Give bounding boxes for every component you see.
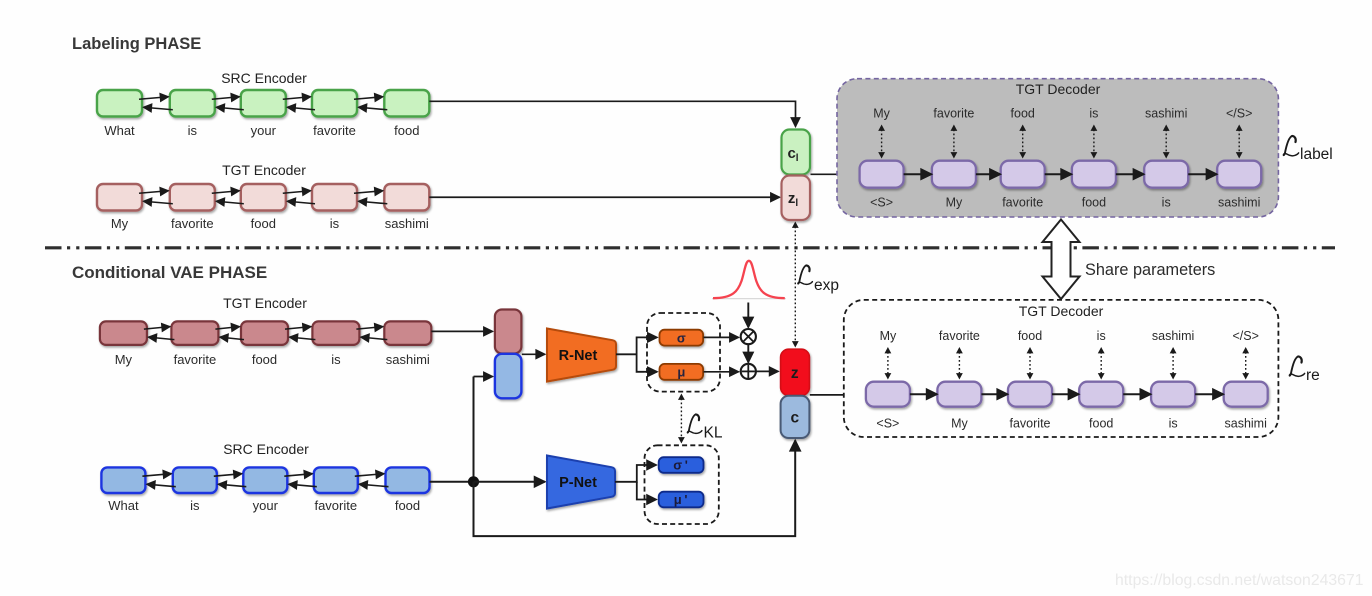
svg-text:Labeling PHASE: Labeling PHASE	[72, 35, 201, 53]
label sigma	[677, 330, 686, 345]
rose TGT encoder cell 4	[312, 321, 359, 345]
label SRC Encoder (top)	[221, 70, 307, 86]
svg-text:My: My	[111, 216, 129, 231]
word "favorite" under rose cell 2	[174, 352, 217, 367]
svg-text:R-Net: R-Net	[559, 348, 598, 364]
lower decoder input word 5	[1169, 417, 1178, 431]
svg-text:is: is	[190, 498, 200, 513]
lower decoder output word 4	[1097, 329, 1106, 343]
blue SRC encoder cell 3	[243, 467, 287, 493]
wire bidirectional arrows pink 2-3	[212, 191, 244, 204]
svg-text:is: is	[330, 216, 340, 231]
svg-text:My: My	[115, 352, 133, 367]
wire bidirectional arrows blue 2-3	[214, 474, 247, 487]
svg-text:</S>: </S>	[1226, 107, 1252, 121]
purple lower decoder cell 2	[937, 382, 981, 407]
word "What" under green cell 1	[104, 123, 135, 138]
lower decoder output word 3	[1018, 329, 1042, 343]
dashed double arrow upper decoder 1	[878, 125, 885, 159]
wire upper decoder 2-3	[976, 173, 1000, 175]
upper decoder output word 6	[1226, 107, 1252, 121]
title Labeling PHASE	[72, 35, 201, 53]
svg-text:z: z	[791, 365, 799, 382]
latent box z (red)	[781, 349, 810, 395]
recognition sigma-mu dashed container	[647, 313, 720, 392]
wire fork to sigma-prime	[644, 464, 656, 466]
prior network P-Net	[547, 456, 615, 509]
pink TGT encoder cell 2	[170, 184, 215, 211]
wire stacked latent to R-Net	[522, 353, 545, 355]
purple lower decoder cell 6	[1224, 382, 1268, 407]
svg-text:<S>: <S>	[870, 196, 893, 210]
wire bidirectional arrows rose 3-4	[285, 327, 315, 340]
rose TGT encoder cell 3	[241, 321, 288, 345]
wire multiply to add node	[747, 344, 749, 362]
green SRC encoder cell 5	[384, 90, 429, 117]
svg-text:food: food	[1082, 196, 1106, 210]
svg-text:sashimi: sashimi	[1152, 329, 1194, 343]
svg-text:</S>: </S>	[1232, 329, 1258, 343]
lower decoder input word 2	[951, 417, 968, 431]
svg-text:sashimi: sashimi	[385, 216, 429, 231]
dashed double arrow lower decoder 6	[1242, 347, 1249, 380]
dashed double arrow lower decoder 1	[885, 347, 892, 380]
gaussian prior curve	[712, 261, 786, 299]
wire R-Net to sigma/mu fork	[616, 337, 644, 371]
wire blue encoder to junction	[430, 481, 474, 483]
word "is" under blue cell 2	[190, 498, 200, 513]
label z_l	[788, 190, 799, 209]
svg-text:SRC Encoder: SRC Encoder	[223, 441, 309, 457]
svg-text:is: is	[1169, 417, 1178, 431]
context box c (blue)	[781, 396, 810, 438]
svg-text:My: My	[951, 417, 968, 431]
wire bidirectional arrows rose 1-2	[144, 327, 175, 340]
svg-text:is: is	[1162, 196, 1171, 210]
blue SRC encoder cell 4	[314, 467, 358, 493]
svg-text:sashimi: sashimi	[1225, 417, 1267, 431]
pink TGT encoder cell 4	[312, 184, 357, 211]
svg-text:label: label	[1300, 146, 1333, 163]
svg-text:favorite: favorite	[171, 216, 214, 231]
svg-text:your: your	[251, 123, 277, 138]
purple lower decoder cell 4	[1079, 382, 1123, 407]
wire fork to mu-prime	[644, 499, 656, 501]
word "food" under rose cell 3	[252, 352, 277, 367]
wire bidirectional arrows green 3-4	[283, 97, 315, 110]
svg-text:favorite: favorite	[939, 329, 980, 343]
svg-text:exp: exp	[814, 277, 839, 294]
wire bidirectional arrows pink 3-4	[283, 191, 315, 204]
wire lower decoder 2-3	[981, 393, 1007, 395]
title lower TGT Decoder	[1019, 303, 1104, 319]
wire bidirectional arrows rose 4-5	[356, 327, 387, 340]
svg-text:favorite: favorite	[1002, 196, 1043, 210]
word "food" under blue cell 5	[395, 498, 420, 513]
wire lower decoder 1-2	[910, 393, 937, 395]
wire pink encoder to z_l	[429, 196, 779, 198]
word "favorite" under pink cell 2	[171, 216, 214, 231]
svg-text:What: What	[104, 123, 135, 138]
wire bidirectional arrows green 4-5	[354, 97, 387, 110]
svg-text:My: My	[873, 107, 890, 121]
wire gaussian sample to multiply node	[747, 303, 749, 328]
wire junction elbow to blue latent box	[474, 376, 493, 378]
svg-text:μ: μ	[677, 365, 685, 380]
wire green encoder to c_l	[429, 101, 795, 126]
upper decoder output word 4	[1089, 107, 1098, 121]
word "your" under blue cell 3	[253, 498, 279, 513]
lower decoder output word 2	[939, 329, 980, 343]
svg-text:μ ': μ '	[674, 492, 688, 507]
label mu	[677, 365, 685, 380]
wire z/c to lower decoder	[810, 394, 862, 396]
rose TGT encoder cell 1	[100, 321, 147, 345]
wire junction to P-Net	[474, 481, 545, 483]
svg-text:sashimi: sashimi	[386, 352, 430, 367]
dashed double arrow lower decoder 3	[1027, 347, 1034, 380]
svg-text:food: food	[395, 498, 420, 513]
svg-text:σ: σ	[677, 330, 686, 345]
upper decoder output word 2	[933, 107, 974, 121]
svg-text:sashimi: sashimi	[1145, 107, 1187, 121]
stacked blue latent box	[495, 354, 522, 399]
word "My" under pink cell 1	[111, 216, 129, 231]
wire lower decoder 4-5	[1123, 393, 1150, 395]
svg-text:your: your	[253, 498, 279, 513]
purple upper decoder cell 2	[932, 161, 976, 188]
svg-text:My: My	[880, 329, 897, 343]
svg-text:My: My	[946, 196, 963, 210]
wire junction to context c	[474, 441, 796, 537]
lower decoder output word 5	[1152, 329, 1194, 343]
dashed double arrow lower decoder 5	[1170, 347, 1177, 380]
wire upper decoder 1-2	[904, 173, 932, 175]
wire lower decoder 5-6	[1195, 393, 1223, 395]
wire bidirectional arrows blue 3-4	[284, 474, 317, 487]
dotted correspondence arrow z to z_l (L_exp)	[792, 222, 799, 348]
green SRC encoder cell 2	[170, 90, 215, 117]
word "sashimi" under rose cell 5	[386, 352, 430, 367]
dashed double arrow upper decoder 3	[1019, 125, 1026, 159]
wire upper decoder 3-4	[1045, 173, 1072, 175]
stacked rose latent box	[495, 310, 522, 354]
svg-text:is: is	[1089, 107, 1098, 121]
svg-text:TGT Decoder: TGT Decoder	[1019, 303, 1104, 319]
dashed double arrow upper decoder 5	[1163, 125, 1170, 159]
wire add node to z	[756, 370, 778, 372]
word "is" under green cell 2	[188, 123, 198, 138]
purple upper decoder cell 1	[860, 161, 904, 188]
title Conditional VAE PHASE	[72, 263, 267, 282]
wire bidirectional arrows blue 1-2	[142, 474, 175, 487]
rose TGT encoder cell 5	[384, 321, 431, 345]
lower decoder input word 6	[1225, 417, 1267, 431]
phase divider dash-dot line	[45, 246, 1335, 249]
label sigma prime	[673, 458, 688, 473]
upper decoder input word 5	[1162, 196, 1171, 210]
purple lower decoder cell 1	[866, 382, 910, 407]
dashed double arrow upper decoder 2	[951, 125, 958, 159]
wire bidirectional arrows rose 2-3	[215, 327, 244, 340]
lower decoder input word 3	[1010, 417, 1051, 431]
latent box z_l	[782, 176, 811, 221]
wire fork to mu	[644, 371, 657, 373]
svg-text:Share parameters: Share parameters	[1085, 261, 1215, 279]
svg-text:https://blog.csdn.net/watson24: https://blog.csdn.net/watson243671	[1115, 572, 1364, 589]
svg-text:is: is	[331, 352, 341, 367]
upper decoder output word 5	[1145, 107, 1187, 121]
svg-text:favorite: favorite	[933, 107, 974, 121]
svg-text:Conditional VAE PHASE: Conditional VAE PHASE	[72, 263, 267, 282]
label TGT Encoder (bottom)	[223, 295, 307, 311]
svg-text:What: What	[108, 498, 139, 513]
svg-text:is: is	[188, 123, 198, 138]
lower decoder input word 4	[1089, 417, 1113, 431]
word "food" under pink cell 3	[251, 216, 276, 231]
upper decoder input word 4	[1082, 196, 1106, 210]
purple upper decoder cell 6	[1217, 161, 1261, 188]
svg-text:favorite: favorite	[174, 352, 217, 367]
mu-prime box (blue)	[659, 492, 704, 508]
word "food" under green cell 5	[394, 123, 419, 138]
wire c_l to upper decoder	[811, 173, 858, 175]
svg-text:favorite: favorite	[1010, 417, 1051, 431]
prior sigma-mu dashed container	[645, 445, 719, 524]
wire fork to sigma	[644, 336, 657, 338]
svg-text:food: food	[252, 352, 277, 367]
svg-text:TGT Encoder: TGT Encoder	[223, 295, 307, 311]
loss label L_re	[1289, 356, 1319, 384]
dashed double arrow upper decoder 4	[1091, 125, 1098, 159]
add node (circle-plus)	[741, 364, 756, 379]
lower TGT Decoder container (white dashed)	[844, 300, 1279, 437]
wire bidirectional arrows green 1-2	[139, 97, 173, 110]
dotted arrow L_KL between sigma-mu boxes	[678, 394, 685, 444]
wire sigma to multiply node	[704, 336, 739, 338]
word "is" under rose cell 4	[331, 352, 341, 367]
word "is" under pink cell 4	[330, 216, 340, 231]
word "sashimi" under pink cell 5	[385, 216, 429, 231]
upper decoder input word 6	[1218, 196, 1260, 210]
svg-text:TGT Decoder: TGT Decoder	[1016, 81, 1101, 97]
rose TGT encoder cell 2	[171, 321, 218, 345]
mu box (orange)	[660, 364, 704, 380]
wire rose encoder to stacked latent	[431, 330, 492, 332]
upper decoder input word 1	[870, 196, 893, 210]
green SRC encoder cell 1	[97, 90, 142, 117]
recognition network R-Net	[547, 329, 616, 382]
wire bidirectional arrows blue 4-5	[355, 474, 389, 487]
svg-text:food: food	[1089, 417, 1113, 431]
svg-text:c: c	[790, 410, 799, 427]
share parameters double-headed arrow	[1043, 220, 1080, 300]
upper decoder input word 2	[946, 196, 963, 210]
lower decoder output word 1	[880, 329, 897, 343]
sigma box (orange)	[660, 330, 704, 346]
label z	[791, 365, 799, 382]
svg-text:food: food	[1018, 329, 1042, 343]
dashed double arrow lower decoder 2	[956, 347, 963, 380]
svg-text:food: food	[1011, 107, 1035, 121]
wire bidirectional arrows pink 1-2	[139, 191, 173, 204]
loss label L_label	[1283, 136, 1332, 163]
purple upper decoder cell 5	[1144, 161, 1188, 188]
label mu prime	[674, 492, 688, 507]
label Share parameters	[1085, 261, 1215, 279]
wire bidirectional arrows green 2-3	[212, 97, 244, 110]
purple lower decoder cell 5	[1151, 382, 1195, 407]
word "What" under blue cell 1	[108, 498, 139, 513]
watermark	[1115, 572, 1364, 589]
upper decoder input word 3	[1002, 196, 1043, 210]
label c_l	[787, 145, 798, 164]
upper decoder output word 3	[1011, 107, 1035, 121]
purple upper decoder cell 4	[1072, 161, 1116, 188]
dashed double arrow lower decoder 4	[1098, 347, 1105, 380]
wire upper decoder 5-6	[1188, 173, 1217, 175]
title upper TGT Decoder	[1016, 81, 1101, 97]
svg-text:KL: KL	[704, 425, 723, 442]
svg-text:σ ': σ '	[673, 458, 688, 473]
blue SRC encoder cell 5	[386, 467, 430, 493]
dashed double arrow upper decoder 6	[1236, 125, 1243, 159]
loss label L_KL	[687, 414, 722, 441]
label c	[790, 410, 799, 427]
lower decoder output word 6	[1232, 329, 1258, 343]
wire junction vertical riser	[473, 377, 475, 483]
label TGT Encoder (top)	[222, 162, 306, 178]
wire bidirectional arrows pink 4-5	[354, 191, 387, 204]
svg-text:food: food	[251, 216, 276, 231]
purple lower decoder cell 3	[1008, 382, 1052, 407]
wire lower decoder 3-4	[1052, 393, 1079, 395]
pink TGT encoder cell 5	[384, 184, 429, 211]
svg-text:P-Net: P-Net	[559, 475, 597, 491]
multiply node (circle-times)	[741, 329, 756, 344]
wire mu to add node	[704, 371, 739, 373]
svg-text:SRC Encoder: SRC Encoder	[221, 70, 307, 86]
sigma-prime box (blue)	[659, 457, 704, 473]
svg-text:TGT Encoder: TGT Encoder	[222, 162, 306, 178]
upper TGT Decoder container (gray dashed)	[837, 79, 1278, 217]
svg-text:is: is	[1097, 329, 1106, 343]
svg-text:sashimi: sashimi	[1218, 196, 1260, 210]
green SRC encoder cell 3	[241, 90, 286, 117]
latent box c_l	[782, 130, 811, 175]
junction node	[468, 476, 479, 487]
svg-text:re: re	[1306, 367, 1320, 384]
svg-text:<S>: <S>	[876, 417, 899, 431]
wire upper decoder 4-5	[1116, 173, 1144, 175]
loss label L_exp	[798, 265, 839, 294]
label SRC Encoder (bottom)	[223, 441, 309, 457]
svg-text:favorite: favorite	[313, 123, 356, 138]
word "your" under green cell 3	[251, 123, 277, 138]
pink TGT encoder cell 3	[241, 184, 286, 211]
blue SRC encoder cell 1	[101, 467, 145, 493]
wire P-Net to sigma-prime/mu-prime fork	[615, 465, 644, 500]
word "My" under rose cell 1	[115, 352, 133, 367]
word "favorite" under green cell 4	[313, 123, 356, 138]
lower decoder input word 1	[876, 417, 899, 431]
upper decoder output word 1	[873, 107, 890, 121]
word "favorite" under blue cell 4	[314, 498, 357, 513]
pink TGT encoder cell 1	[97, 184, 142, 211]
blue SRC encoder cell 2	[173, 467, 217, 493]
purple upper decoder cell 3	[1001, 161, 1045, 188]
svg-text:favorite: favorite	[314, 498, 357, 513]
green SRC encoder cell 4	[312, 90, 357, 117]
svg-text:food: food	[394, 123, 419, 138]
